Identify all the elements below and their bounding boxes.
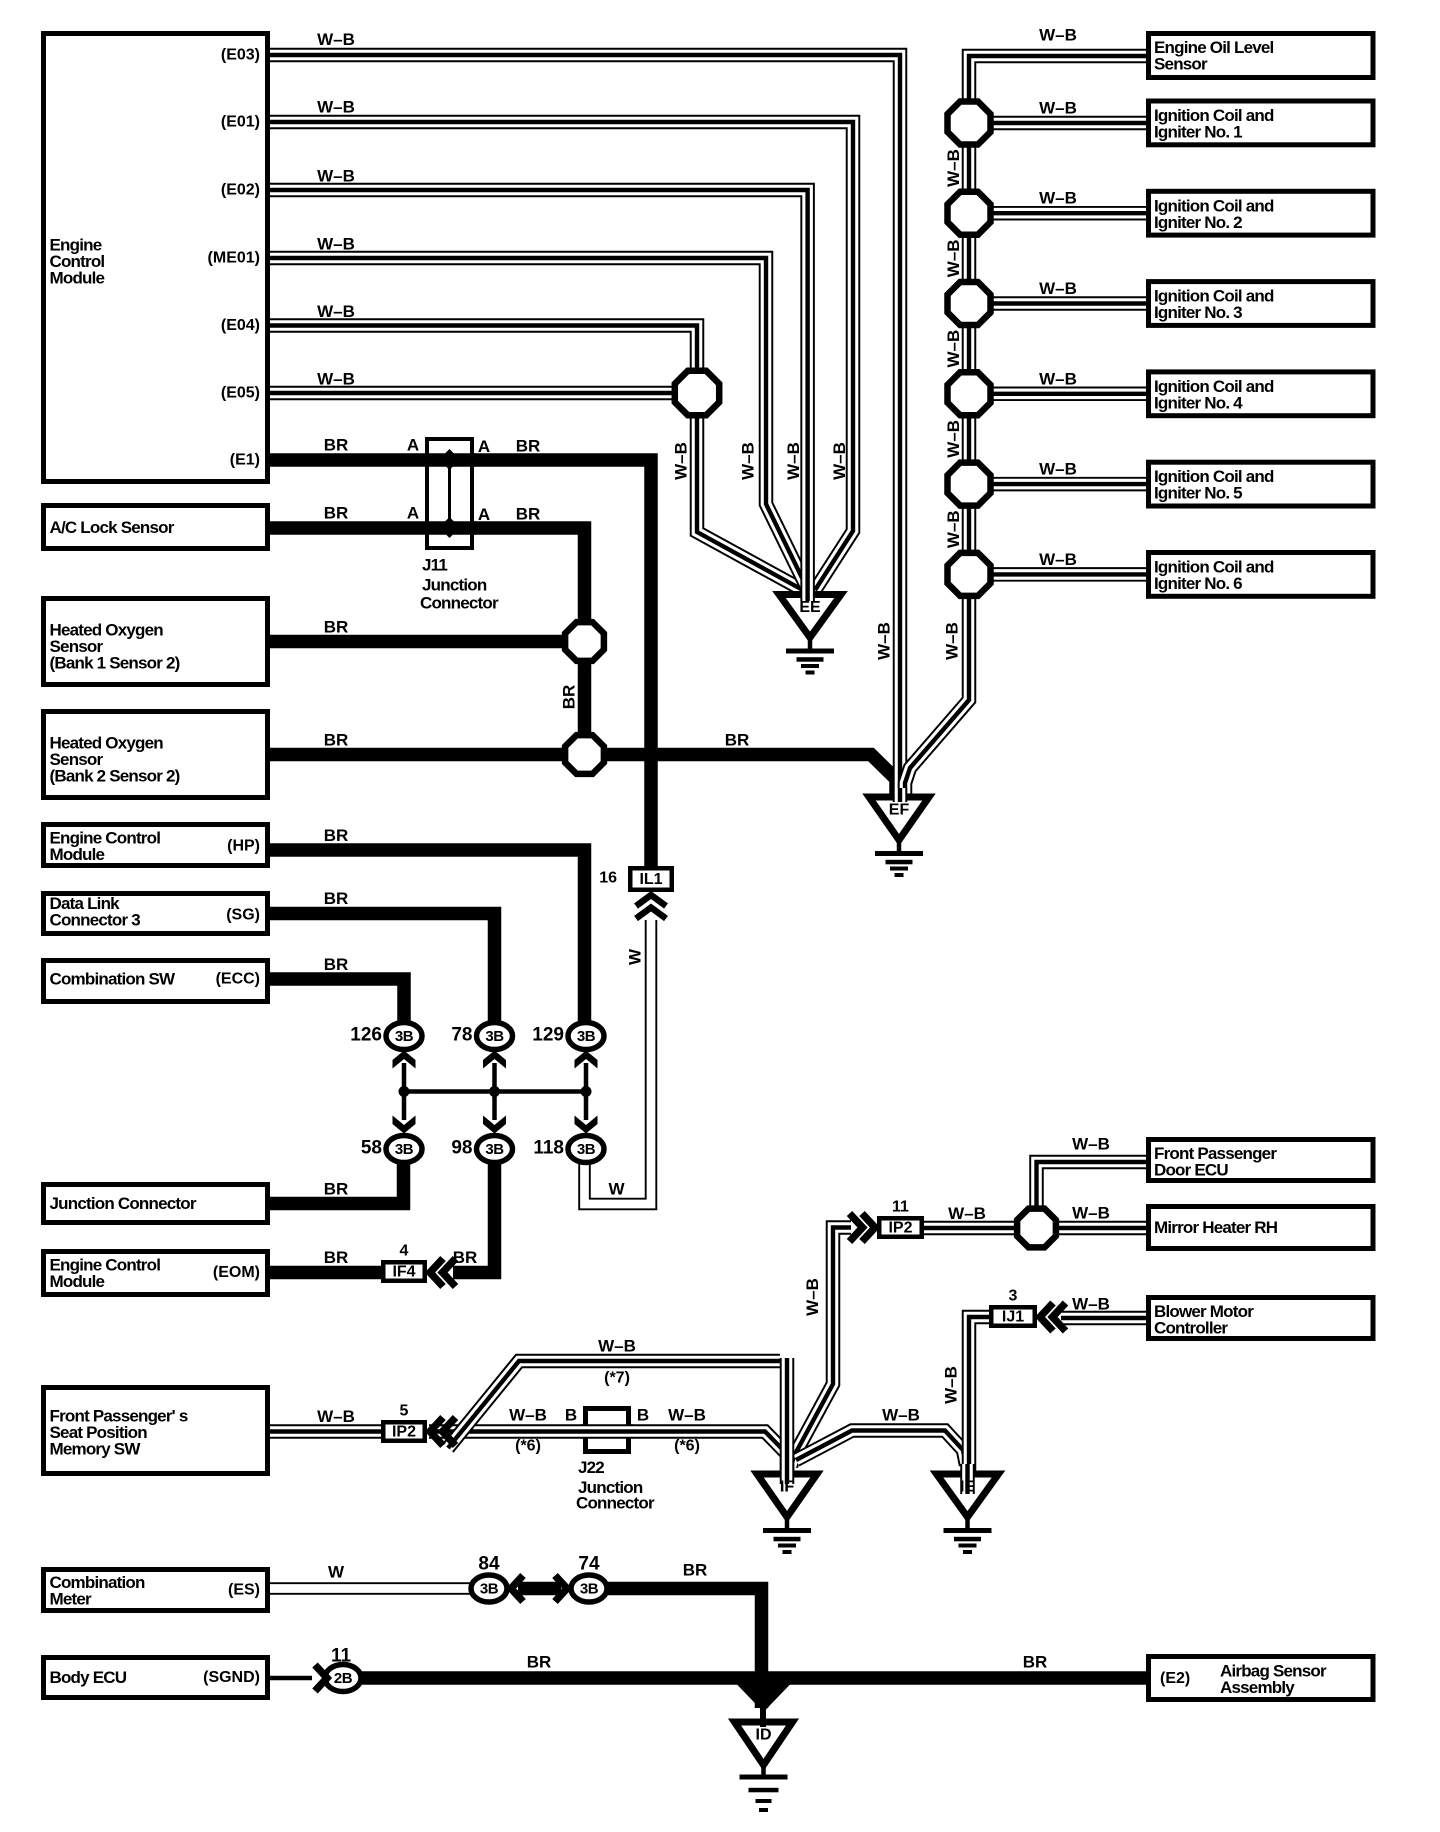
svg-text:Igniter No. 2: Igniter No. 2 [1154,213,1242,232]
svg-text:B: B [637,1406,649,1425]
svg-text:Sensor: Sensor [1154,55,1208,74]
svg-text:BR: BR [527,1653,552,1672]
svg-text:W–B: W–B [882,1406,920,1425]
svg-text:(E03): (E03) [221,47,260,64]
svg-text:(*7): (*7) [604,1370,630,1387]
svg-text:B: B [565,1406,577,1425]
svg-text:W–B: W–B [784,442,803,480]
svg-text:Igniter No. 1: Igniter No. 1 [1154,123,1242,142]
svg-text:BR: BR [324,731,349,750]
svg-text:W–B: W–B [944,239,963,277]
svg-text:3B: 3B [580,1581,599,1598]
svg-text:EF: EF [889,802,910,819]
svg-text:3B: 3B [395,1141,414,1158]
svg-text:EE: EE [799,599,821,616]
svg-text:Connector 3: Connector 3 [50,911,141,930]
svg-text:3B: 3B [480,1581,499,1598]
svg-text:(Bank 1 Sensor 2): (Bank 1 Sensor 2) [50,654,180,673]
svg-text:Junction Connector: Junction Connector [50,1194,197,1213]
svg-text:11: 11 [331,1646,352,1667]
svg-text:11: 11 [892,1199,909,1216]
svg-text:(E1): (E1) [230,452,260,469]
svg-text:IP2: IP2 [392,1424,416,1441]
svg-text:W–B: W–B [948,1204,986,1223]
svg-text:W–B: W–B [943,622,962,660]
svg-text:W–B: W–B [1039,279,1077,298]
svg-text:A/C Lock Sensor: A/C Lock Sensor [50,518,175,537]
svg-text:Controller: Controller [1154,1319,1228,1338]
svg-text:W: W [608,1180,625,1199]
svg-text:W–B: W–B [598,1337,636,1356]
svg-text:Connector: Connector [420,594,499,613]
svg-text:W: W [328,1563,345,1582]
svg-text:W–B: W–B [317,235,355,254]
svg-text:Door ECU: Door ECU [1154,1161,1228,1180]
svg-text:W–B: W–B [317,1407,355,1426]
svg-text:Igniter No. 4: Igniter No. 4 [1154,393,1243,412]
svg-text:W–B: W–B [1072,1135,1110,1154]
svg-text:16: 16 [599,870,617,887]
svg-text:W–B: W–B [509,1406,547,1425]
svg-text:BR: BR [324,1180,349,1199]
svg-text:4: 4 [400,1243,409,1260]
svg-text:W–B: W–B [1072,1295,1110,1314]
svg-text:W–B: W–B [739,442,758,480]
svg-text:(E02): (E02) [221,182,260,199]
svg-text:BR: BR [516,505,541,524]
svg-text:A: A [478,505,490,524]
svg-text:3B: 3B [395,1028,414,1045]
svg-text:W–B: W–B [317,98,355,117]
svg-text:W–B: W–B [317,30,355,49]
svg-text:W–B: W–B [1072,1204,1110,1223]
svg-text:(EOM): (EOM) [213,1264,260,1281]
svg-text:BR: BR [324,826,349,845]
svg-text:BR: BR [324,618,349,637]
svg-text:BR: BR [324,504,349,523]
svg-text:BR: BR [453,1248,478,1267]
svg-text:W–B: W–B [942,1366,961,1404]
svg-text:(E04): (E04) [221,317,260,334]
svg-text:Junction: Junction [422,576,487,595]
svg-text:84: 84 [478,1554,500,1575]
svg-text:3B: 3B [577,1028,596,1045]
svg-text:(ECC): (ECC) [216,971,260,988]
svg-text:Assembly: Assembly [1220,1678,1295,1697]
svg-text:Combination SW: Combination SW [50,970,177,989]
svg-text:BR: BR [324,889,349,908]
svg-text:(E2): (E2) [1160,1670,1190,1687]
svg-text:129: 129 [532,1025,564,1046]
svg-text:3B: 3B [485,1141,504,1158]
svg-text:98: 98 [451,1138,472,1159]
svg-text:(*6): (*6) [515,1438,541,1455]
svg-text:BR: BR [683,1561,708,1580]
svg-text:BR: BR [516,437,541,456]
svg-text:(E05): (E05) [221,385,260,402]
svg-text:IE: IE [960,1479,975,1496]
svg-text:BR: BR [324,1248,349,1267]
svg-text:W–B: W–B [944,510,963,548]
svg-text:IF4: IF4 [392,1264,415,1281]
svg-text:W–B: W–B [1039,99,1077,118]
svg-text:BR: BR [324,436,349,455]
svg-text:W–B: W–B [317,302,355,321]
svg-text:ID: ID [756,1727,772,1744]
svg-text:W–B: W–B [1039,189,1077,208]
svg-text:Igniter No. 6: Igniter No. 6 [1154,574,1242,593]
svg-text:A: A [407,504,419,523]
svg-text:5: 5 [400,1403,409,1420]
svg-text:W–B: W–B [803,1278,822,1316]
svg-text:IJ1: IJ1 [1002,1309,1024,1326]
svg-text:W–B: W–B [1039,460,1077,479]
svg-text:W–B: W–B [1039,26,1077,45]
svg-text:(*6): (*6) [674,1438,700,1455]
svg-text:3B: 3B [485,1028,504,1045]
svg-text:W–B: W–B [1039,369,1077,388]
svg-text:W–B: W–B [317,167,355,186]
svg-text:Connector: Connector [576,1494,655,1513]
svg-text:IF: IF [780,1479,794,1496]
svg-text:J11: J11 [422,556,447,575]
svg-text:A: A [478,437,490,456]
svg-text:3: 3 [1009,1288,1018,1305]
svg-text:BR: BR [324,955,349,974]
svg-text:Module: Module [50,1272,105,1291]
svg-text:J22: J22 [578,1458,604,1477]
svg-text:Module: Module [50,845,105,864]
svg-text:BR: BR [1023,1653,1048,1672]
svg-text:Memory SW: Memory SW [50,1440,142,1459]
svg-text:BR: BR [560,685,579,710]
svg-text:Igniter No. 5: Igniter No. 5 [1154,484,1242,503]
svg-text:Module: Module [50,269,105,288]
svg-text:(SG): (SG) [226,907,260,924]
svg-text:(Bank 2 Sensor 2): (Bank 2 Sensor 2) [50,767,180,786]
svg-text:W–B: W–B [672,442,691,480]
svg-text:78: 78 [451,1025,472,1046]
svg-text:(SGND): (SGND) [203,1669,260,1686]
svg-text:(ME01): (ME01) [208,250,260,267]
svg-text:W: W [626,948,645,965]
svg-text:W–B: W–B [317,370,355,389]
svg-text:Mirror Heater RH: Mirror Heater RH [1154,1218,1278,1237]
svg-text:(ES): (ES) [228,1582,260,1599]
svg-text:Meter: Meter [50,1590,93,1609]
svg-text:2B: 2B [334,1670,353,1687]
svg-text:(HP): (HP) [227,838,260,855]
svg-text:118: 118 [533,1138,564,1159]
svg-text:126: 126 [350,1025,382,1046]
svg-text:W–B: W–B [944,149,963,187]
svg-text:W–B: W–B [875,622,894,660]
svg-text:W–B: W–B [1039,550,1077,569]
svg-text:W–B: W–B [944,420,963,458]
svg-text:74: 74 [578,1554,600,1575]
svg-text:3B: 3B [577,1141,596,1158]
svg-text:Igniter No. 3: Igniter No. 3 [1154,303,1242,322]
svg-text:A: A [407,436,419,455]
svg-text:(E01): (E01) [221,114,260,131]
svg-text:W–B: W–B [668,1406,706,1425]
svg-text:Body ECU: Body ECU [50,1668,127,1687]
svg-text:BR: BR [725,731,750,750]
svg-text:W–B: W–B [944,330,963,368]
svg-text:58: 58 [361,1138,382,1159]
svg-text:IL1: IL1 [639,871,662,888]
svg-text:W–B: W–B [830,442,849,480]
svg-text:IP2: IP2 [888,1220,912,1237]
